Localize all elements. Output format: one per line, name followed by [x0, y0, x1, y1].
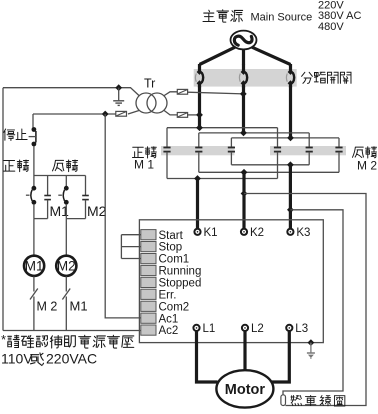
- wire to K3 node: [231, 164, 309, 166]
- fuse F3 primary bottom: [164, 110, 200, 117]
- label 反轉 M2: [352, 147, 377, 173]
- svg-text:M 1: M 1: [134, 158, 154, 172]
- junction C on L3: [287, 135, 294, 142]
- junction ground tap: [115, 84, 122, 91]
- terminal K1: [194, 227, 217, 239]
- svg-text:Stop: Stop: [159, 242, 183, 254]
- breaker band 分路開關: [194, 69, 297, 87]
- svg-text:M 2: M 2: [37, 300, 58, 314]
- K2 feeder: [242, 172, 245, 229]
- rejoin reverse: [66, 218, 85, 220]
- svg-text:Running: Running: [159, 266, 202, 278]
- pushbutton NO reverse: [65, 176, 67, 187]
- junction PE tap: [308, 339, 315, 346]
- K1 feeder: [196, 179, 199, 230]
- label 分路開關: [302, 72, 313, 83]
- junction Ac1 rail tap: [102, 111, 109, 118]
- terminal L3: [286, 323, 308, 335]
- svg-text:Com1: Com1: [159, 254, 190, 266]
- wire source to phase L1: [200, 47, 236, 64]
- label 反轉 reverse: [52, 160, 63, 171]
- svg-text:*: *: [1, 332, 6, 347]
- fuse F1 control: [116, 111, 139, 117]
- svg-text:M 2: M 2: [357, 159, 377, 173]
- K3 feeder: [289, 165, 292, 230]
- seal-in contact M2: [85, 176, 87, 196]
- crossbar C from L3: [231, 137, 339, 139]
- svg-text:Tr: Tr: [144, 77, 155, 91]
- junction A on L1: [196, 124, 203, 131]
- label 停止: [4, 129, 15, 141]
- crossbar A from L1: [167, 127, 278, 129]
- svg-text:Stopped: Stopped: [159, 278, 202, 290]
- main power title 主電源: [203, 10, 215, 21]
- contact M1-3: [230, 138, 232, 147]
- AC source symbol: [231, 31, 257, 50]
- junction K3 top: [287, 161, 294, 168]
- svg-text:Err.: Err.: [159, 289, 177, 301]
- rejoin forward: [34, 218, 48, 220]
- transformer Tr primary winding: [136, 93, 156, 113]
- junction B on L2: [240, 130, 247, 137]
- svg-text:M2: M2: [87, 203, 107, 219]
- phase bus L2: [242, 86, 245, 134]
- terminal strip: [141, 230, 156, 336]
- breaker pole 3: [289, 64, 292, 72]
- left common rail: [2, 88, 4, 331]
- coil M1: [24, 256, 44, 276]
- svg-text:M2: M2: [57, 259, 76, 274]
- svg-text:Com2: Com2: [159, 301, 190, 313]
- junction K1 top: [194, 175, 201, 182]
- wire fuse to stop column: [33, 113, 116, 115]
- interlock NC contact M1: [65, 276, 67, 291]
- control node line: [34, 175, 86, 177]
- wire to K1 node: [167, 178, 278, 180]
- contact M2-1: [277, 128, 279, 148]
- terminal L2: [242, 323, 264, 335]
- svg-text:L2: L2: [251, 323, 264, 335]
- wire to coil M2: [65, 219, 67, 256]
- junction brake tap K2: [241, 190, 248, 197]
- junction K2 top: [241, 169, 248, 176]
- svg-text:M1: M1: [25, 259, 44, 274]
- pushbutton NC stop: [29, 127, 37, 175]
- wire Tr left-top to left rail: [3, 88, 140, 96]
- pushbutton NO forward: [33, 176, 35, 187]
- contact M2-3: [338, 138, 340, 147]
- motor wire L2: [243, 332, 246, 370]
- fuse F2 primary top: [164, 89, 244, 96]
- junction brake tap K3: [287, 206, 294, 213]
- label 正轉 M1: [132, 147, 156, 172]
- contact M2-2: [308, 133, 310, 147]
- brake coil component: [281, 395, 286, 406]
- svg-text:Main Source: Main Source: [251, 12, 313, 24]
- wire to coil M1: [33, 219, 35, 256]
- breaker pole 1: [198, 64, 201, 72]
- wire to K2 node: [199, 171, 339, 173]
- wire source to phase L3: [252, 47, 291, 64]
- phase bus L1: [198, 86, 201, 129]
- jumper bracket Start-Stop-Com1: [121, 235, 140, 259]
- svg-text:Ac1: Ac1: [159, 313, 179, 325]
- wire source to phase L2: [242, 49, 245, 64]
- svg-text:480V: 480V: [318, 21, 344, 33]
- label 正轉 forward: [3, 161, 14, 172]
- phase bus L3: [289, 86, 292, 139]
- stop button column top: [32, 114, 34, 128]
- svg-text:Motor: Motor: [225, 382, 266, 398]
- junction primary top on L2: [240, 91, 247, 98]
- contactor band M2: [270, 146, 346, 155]
- svg-text:K1: K1: [204, 227, 218, 239]
- terminal L1: [193, 323, 215, 335]
- motor wire L1: [197, 332, 218, 383]
- brake wire from K3: [283, 210, 343, 395]
- svg-text:L3: L3: [295, 323, 308, 335]
- contact M1-2: [198, 133, 200, 147]
- interlock NC contact M2: [33, 276, 35, 291]
- terminal labels: [159, 230, 202, 337]
- motor M: [216, 370, 273, 407]
- contact M1-1: [166, 128, 168, 148]
- earth arrow symbol: [307, 343, 315, 359]
- controller box: [139, 220, 323, 343]
- terminal K2: [241, 227, 264, 239]
- svg-text:K3: K3: [296, 227, 310, 239]
- svg-text:M1: M1: [70, 299, 88, 314]
- svg-text:Ac2: Ac2: [159, 325, 179, 337]
- svg-text:K2: K2: [250, 227, 264, 239]
- svg-text:Start: Start: [159, 230, 184, 242]
- label 煞車線圈: [291, 395, 302, 405]
- coil M2: [56, 256, 76, 276]
- breaker pole 2: [242, 64, 245, 72]
- junction primary bottom on L1: [196, 112, 203, 119]
- svg-text:220VAC: 220VAC: [46, 351, 97, 367]
- seal-in contact M1: [47, 176, 49, 196]
- svg-text:L1: L1: [203, 323, 216, 335]
- svg-text:110V: 110V: [1, 351, 33, 367]
- motor wire L3: [272, 332, 289, 383]
- common return rail: [3, 330, 141, 332]
- transformer Tr secondary winding: [147, 93, 167, 113]
- earth ground symbol: [113, 88, 124, 106]
- Ac1 rail: [105, 114, 141, 318]
- terminal K3: [287, 227, 310, 239]
- brake wire from K2: [244, 194, 366, 406]
- contactor band M1: [161, 146, 235, 155]
- crossbar B from L2: [199, 132, 309, 134]
